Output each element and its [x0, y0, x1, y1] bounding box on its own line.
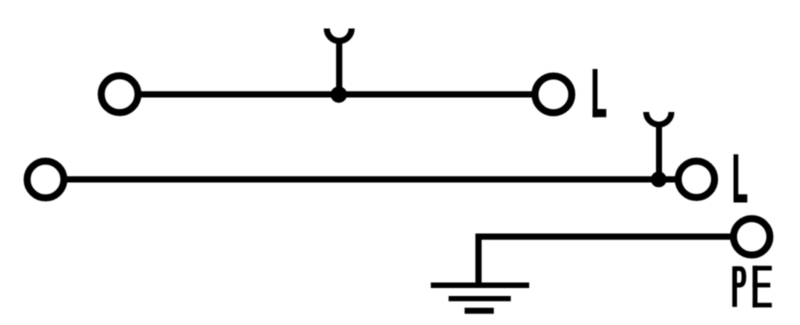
terminal circle X2 (top right, L): [535, 76, 572, 113]
label L (middle rail): [734, 154, 748, 202]
test tap T1 (disconnect point on top rail): [327, 29, 352, 95]
terminal circle X3 (middle left): [27, 161, 64, 198]
label PE (ground terminal): [732, 266, 772, 308]
wire W2 (middle rail L): [46, 176, 697, 182]
terminal circle X1 (top left): [101, 76, 138, 113]
junction dot J1: [331, 86, 347, 102]
wire W1 (top rail L): [120, 91, 553, 97]
ground (PE earth symbol): [431, 285, 529, 311]
label L (top rail): [593, 69, 607, 117]
terminal circle X4 (middle right, L): [678, 161, 714, 197]
junction dot J2: [651, 172, 667, 188]
test tap T2 (disconnect point on middle rail): [646, 112, 671, 179]
wire W3 (PE wire to ground): [479, 237, 752, 286]
terminal circle X5 (bottom right, PE): [734, 219, 770, 255]
